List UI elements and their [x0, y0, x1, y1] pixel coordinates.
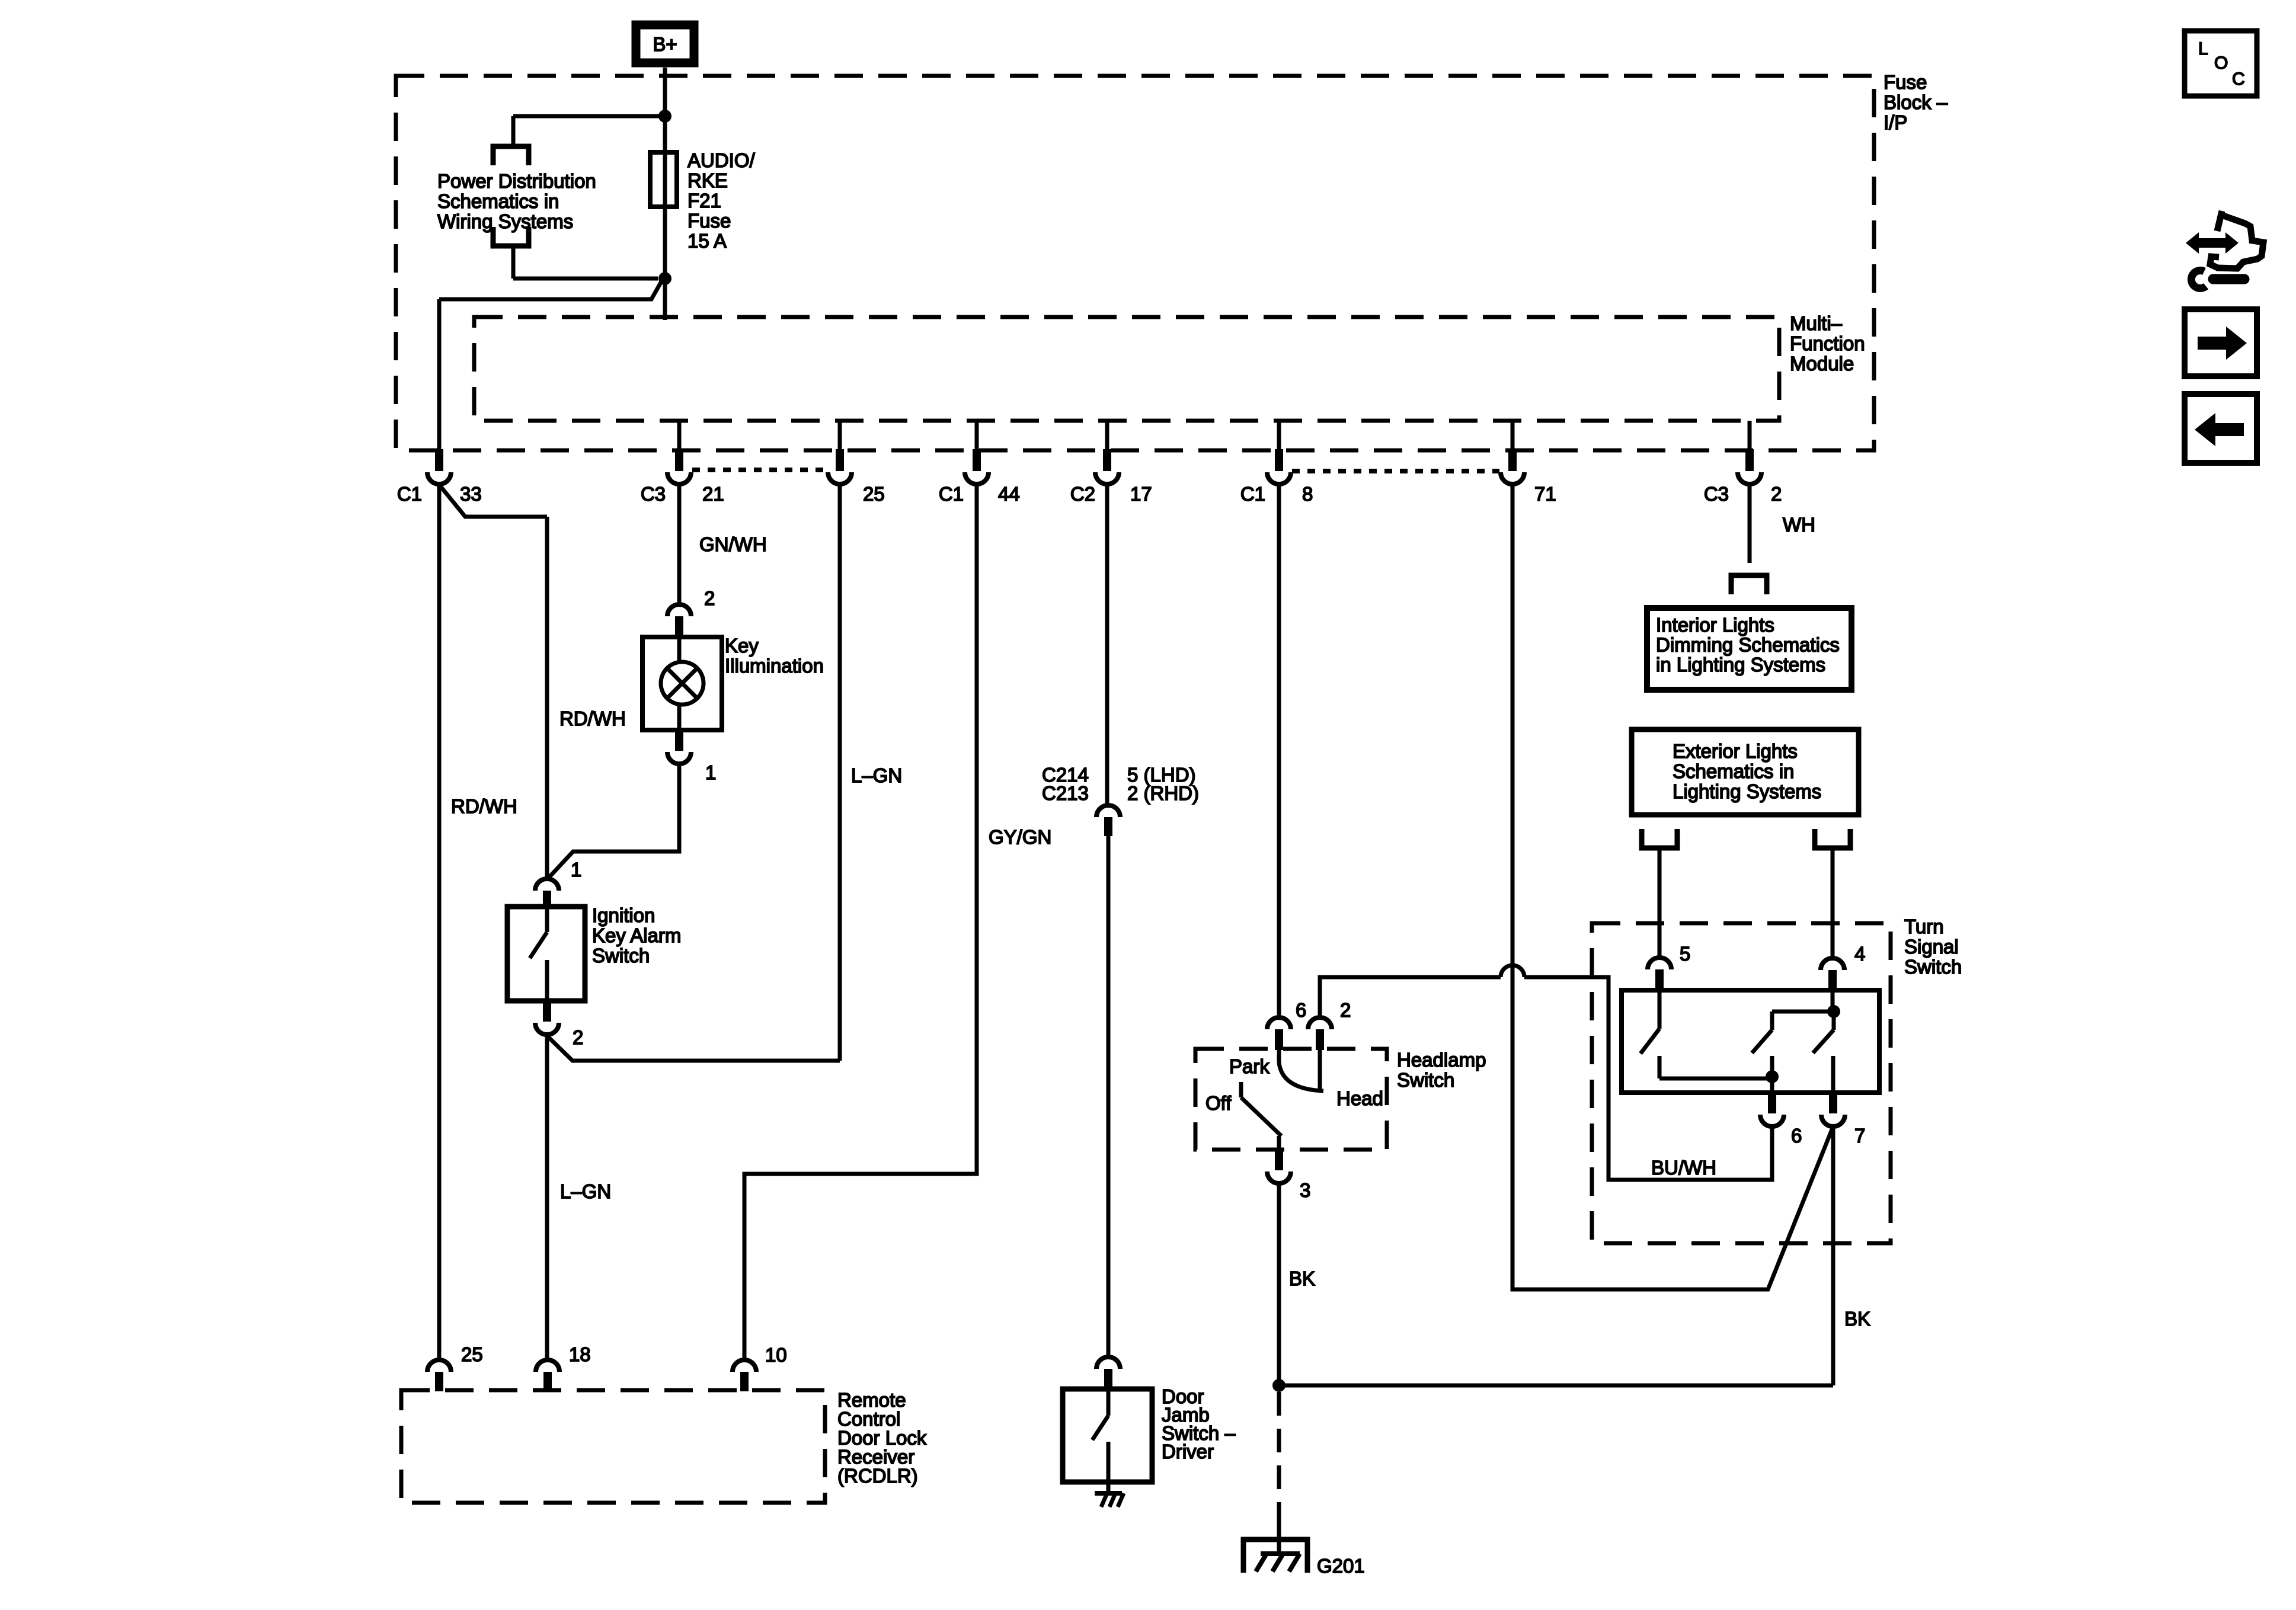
- svg-text:25: 25: [461, 1343, 483, 1365]
- pin 25 RCDLR: [427, 1360, 451, 1391]
- icon wrench/part: [2186, 211, 2263, 288]
- svg-text:1: 1: [705, 761, 716, 783]
- svg-text:18: 18: [569, 1343, 591, 1365]
- switch Door Jamb - Driver: [1063, 1389, 1152, 1482]
- svg-text:Fuse: Fuse: [687, 210, 731, 232]
- svg-text:Key Alarm: Key Alarm: [592, 924, 681, 946]
- pin 25: [828, 449, 852, 484]
- svg-text:AUDIO/: AUDIO/: [687, 149, 756, 171]
- pin 2 headlamp switch: [1308, 1017, 1332, 1050]
- svg-text:Fuse: Fuse: [1884, 71, 1927, 93]
- svg-text:Schematics in: Schematics in: [437, 190, 559, 212]
- svg-text:Turn: Turn: [1904, 916, 1944, 937]
- wire RD/WH to RCDLR 25: [437, 485, 442, 1359]
- svg-text:BK: BK: [1289, 1267, 1315, 1289]
- wire MFM to pin: [677, 421, 682, 449]
- wire hop over 71 line: [1501, 965, 1524, 977]
- svg-text:2: 2: [573, 1026, 583, 1048]
- ground G201: [1243, 1523, 1307, 1573]
- svg-text:1: 1: [571, 859, 581, 881]
- svg-text:Function: Function: [1790, 332, 1865, 354]
- pin 6 TSS: [1760, 1093, 1784, 1126]
- label Fuse Block - I/P: [1884, 71, 1948, 133]
- junction at fuse bottom: [658, 272, 671, 285]
- label Interior Lights Dimming Schematics: [1656, 614, 1840, 676]
- pin 5 TSS: [1648, 958, 1671, 991]
- svg-text:8: 8: [1302, 483, 1313, 505]
- svg-text:Key: Key: [725, 635, 759, 657]
- svg-text:Block –: Block –: [1884, 91, 1948, 113]
- svg-text:BU/WH: BU/WH: [1651, 1157, 1716, 1179]
- svg-text:2 (RHD): 2 (RHD): [1127, 782, 1199, 804]
- svg-text:Multi–: Multi–: [1790, 312, 1843, 334]
- svg-text:C1: C1: [397, 483, 422, 505]
- fuse block I/P dashed box: [396, 76, 1874, 450]
- icon LOC box: [2185, 31, 2257, 96]
- svg-text:Schematics in: Schematics in: [1673, 760, 1794, 782]
- svg-text:2: 2: [1340, 999, 1351, 1021]
- pin 7 TSS: [1821, 1093, 1845, 1126]
- svg-text:2: 2: [704, 587, 715, 609]
- svg-text:Lighting Systems: Lighting Systems: [1673, 780, 1821, 802]
- svg-text:25: 25: [863, 483, 885, 505]
- svg-text:6: 6: [1296, 999, 1306, 1021]
- svg-text:O: O: [2214, 53, 2228, 73]
- svg-text:BK: BK: [1844, 1308, 1870, 1330]
- pin 3 headlamp switch: [1267, 1150, 1291, 1183]
- svg-text:C2: C2: [1070, 483, 1095, 505]
- wire BK riser: [1831, 1126, 1835, 1385]
- wire B+ down: [663, 68, 667, 116]
- svg-text:6: 6: [1791, 1125, 1802, 1147]
- wire down to ref bracket: [511, 116, 516, 146]
- svg-text:RKE: RKE: [687, 169, 728, 191]
- wire junction to fuse: [663, 116, 667, 152]
- svg-text:GY/GN: GY/GN: [989, 826, 1051, 848]
- svg-text:F21: F21: [687, 190, 721, 212]
- label Remote Control Door Lock Receiver RCDLR: [837, 1389, 927, 1487]
- half-box ref left: [1642, 829, 1677, 848]
- icon arrow left box: [2185, 394, 2257, 463]
- fuse F21: [650, 152, 677, 207]
- svg-text:4: 4: [1854, 943, 1865, 965]
- wire L-GN down to RCDLR 18: [545, 1036, 549, 1359]
- junction at fuse top: [658, 110, 671, 123]
- wire 71 to turn signal 7: [1512, 485, 1833, 1289]
- svg-text:21: 21: [702, 483, 724, 505]
- lamp Key Illumination: [642, 637, 722, 730]
- pin C1 33: [427, 449, 451, 484]
- pin 6 headlamp switch: [1267, 1017, 1291, 1050]
- svg-text:in Lighting Systems: in Lighting Systems: [1656, 654, 1825, 676]
- wire through fuse: [663, 152, 667, 207]
- wire RD/WH to ignition switch: [439, 485, 547, 517]
- headlamp switch internals: [1205, 1049, 1383, 1150]
- wire to power distribution ref: [513, 114, 665, 119]
- svg-text:Switch: Switch: [592, 945, 650, 966]
- TSS inner box: [1622, 990, 1879, 1093]
- wire from ref bracket down: [511, 246, 516, 279]
- pin C2 17: [1095, 449, 1119, 484]
- svg-text:RD/WH: RD/WH: [559, 708, 626, 729]
- turn signal switch dashed box: [1592, 923, 1891, 1243]
- wire BU/WH loop: [1524, 977, 1772, 1180]
- headlamp switch dashed box: [1195, 1049, 1387, 1150]
- wire L-GN riser to pin 25: [838, 485, 842, 1061]
- pin 2 key illumination: [667, 604, 691, 638]
- label Power Distribution Schematics in Wiring Systems: [437, 170, 596, 232]
- pin 10 RCDLR: [733, 1360, 756, 1391]
- TSS internal switches: [1641, 990, 1840, 1093]
- box Exterior Lights ref: [1632, 729, 1859, 815]
- svg-text:C3: C3: [1704, 483, 1729, 505]
- svg-text:L: L: [2198, 39, 2208, 59]
- svg-text:Switch: Switch: [1904, 956, 1962, 978]
- svg-text:Interior Lights: Interior Lights: [1656, 614, 1774, 636]
- connector C214/C213: [1096, 805, 1120, 836]
- svg-text:I/P: I/P: [1884, 111, 1907, 133]
- wire MFM to pin: [838, 421, 842, 449]
- label Door Jamb Switch - Driver: [1162, 1385, 1236, 1462]
- wire fuse to junction: [663, 207, 667, 279]
- svg-text:G201: G201: [1317, 1555, 1365, 1577]
- svg-text:3: 3: [1300, 1179, 1310, 1201]
- pin 71: [1501, 449, 1524, 484]
- svg-text:Headlamp: Headlamp: [1397, 1049, 1486, 1071]
- wire BK down: [1277, 1184, 1281, 1385]
- wire MFM to pin: [1277, 421, 1281, 449]
- label C214 C213: [1042, 764, 1089, 804]
- multi-function module dashed box: [474, 317, 1779, 421]
- wire MFM to pin: [1748, 421, 1752, 449]
- wire MFM to pin: [1105, 421, 1109, 449]
- wire BK to TSS 7: [1279, 1384, 1833, 1388]
- wire C2-17 down: [1105, 485, 1109, 805]
- svg-text:15 A: 15 A: [687, 230, 727, 252]
- svg-text:44: 44: [998, 483, 1020, 505]
- label Multi-Function Module: [1790, 312, 1865, 375]
- svg-text:C213: C213: [1042, 782, 1089, 804]
- half-box ref top (Power Distribution): [493, 146, 529, 165]
- svg-text:WH: WH: [1783, 514, 1815, 536]
- label 5 LHD 2 RHD: [1127, 764, 1199, 804]
- svg-text:10: 10: [765, 1344, 787, 1366]
- svg-text:Module: Module: [1790, 353, 1854, 375]
- label Key Illumination: [725, 635, 824, 677]
- svg-text:Driver: Driver: [1162, 1441, 1214, 1462]
- svg-text:GN/WH: GN/WH: [699, 533, 767, 555]
- label Headlamp Switch: [1397, 1049, 1486, 1091]
- svg-text:Off: Off: [1205, 1092, 1232, 1114]
- svg-text:Head: Head: [1336, 1087, 1383, 1109]
- half-box ref right: [1815, 829, 1850, 848]
- wire GN/WH: [677, 485, 682, 604]
- junction BK: [1272, 1379, 1285, 1392]
- svg-text:Exterior Lights: Exterior Lights: [1673, 740, 1798, 762]
- icon arrow right box: [2185, 309, 2257, 376]
- pin C1 8: [1267, 449, 1291, 484]
- wire WH: [1748, 485, 1752, 563]
- wire to TSS pin 4: [1831, 848, 1835, 958]
- svg-text:L–GN: L–GN: [851, 764, 902, 786]
- wire to TSS pin 5: [1658, 848, 1662, 957]
- svg-text:33: 33: [460, 483, 482, 505]
- svg-text:17: 17: [1130, 483, 1152, 505]
- svg-text:Signal: Signal: [1904, 936, 1959, 958]
- wire to door jamb switch: [1107, 836, 1111, 1356]
- switch Ignition Key Alarm: [507, 907, 585, 1001]
- wire down to pin C1 33: [437, 299, 442, 449]
- half-box ref bottom (Power Distribution): [493, 227, 529, 246]
- svg-text:C: C: [2232, 69, 2245, 89]
- svg-text:L–GN: L–GN: [560, 1180, 611, 1202]
- pin C3 2: [1738, 449, 1761, 484]
- wire jog to C1-33: [439, 281, 661, 299]
- power symbol B+: [636, 25, 694, 63]
- pin 2 ignition key alarm switch: [535, 1001, 559, 1035]
- wire RD/WH vertical: [545, 517, 549, 878]
- pin 4 TSS: [1821, 958, 1844, 991]
- svg-text:RD/WH: RD/WH: [451, 795, 517, 817]
- pin 1 key illumination: [667, 730, 691, 764]
- label Ignition Key Alarm Switch: [592, 904, 681, 966]
- svg-text:5: 5: [1680, 943, 1690, 965]
- wire to ground G201 (dashed): [1277, 1392, 1281, 1526]
- label AUDIO/RKE F21 Fuse 15 A: [687, 149, 756, 252]
- wire MFM to pin: [975, 421, 979, 449]
- svg-text:2: 2: [1771, 483, 1782, 505]
- svg-text:Switch: Switch: [1397, 1069, 1454, 1091]
- svg-text:C3: C3: [641, 483, 666, 505]
- svg-text:Wiring Systems: Wiring Systems: [437, 210, 573, 232]
- svg-text:C1: C1: [939, 483, 964, 505]
- svg-text:Park: Park: [1229, 1055, 1269, 1077]
- wire MFM to pin: [1511, 421, 1515, 449]
- pin door jamb switch: [1096, 1357, 1120, 1390]
- box Interior Lights ref: [1647, 608, 1851, 690]
- dotted connector tie 21-25: [692, 468, 827, 472]
- half-box ref (Interior Lights): [1731, 575, 1767, 594]
- svg-text:Power Distribution: Power Distribution: [437, 170, 596, 192]
- wire to fuse bottom junction: [513, 277, 658, 281]
- wire C1-8 to headlamp 6: [1277, 485, 1281, 1017]
- svg-text:Illumination: Illumination: [725, 655, 824, 677]
- pin C3 21: [667, 449, 691, 484]
- wire GY/GN: [744, 485, 977, 1359]
- svg-text:71: 71: [1534, 483, 1556, 505]
- label Turn Signal Switch: [1904, 916, 1962, 978]
- svg-text:C1: C1: [1240, 483, 1265, 505]
- pin 18 RCDLR: [536, 1360, 559, 1391]
- wire key illumination to ignition switch: [548, 764, 679, 878]
- svg-text:B+: B+: [653, 33, 677, 55]
- pin 1 ignition key alarm switch: [535, 879, 559, 908]
- dotted connector tie 8-71: [1292, 469, 1499, 473]
- ground under door jamb switch: [1095, 1482, 1124, 1507]
- wire junction into MFM: [663, 279, 667, 320]
- RCDLR dashed box: [401, 1390, 825, 1503]
- svg-text:(RCDLR): (RCDLR): [837, 1465, 918, 1487]
- pin C1 44: [965, 449, 989, 484]
- svg-text:Ignition: Ignition: [592, 904, 655, 926]
- svg-text:Dimming Schematics: Dimming Schematics: [1656, 634, 1840, 656]
- wire pin2 to L-GN riser: [547, 1036, 840, 1061]
- label Exterior Lights Schematics: [1673, 740, 1821, 802]
- svg-text:7: 7: [1854, 1125, 1865, 1147]
